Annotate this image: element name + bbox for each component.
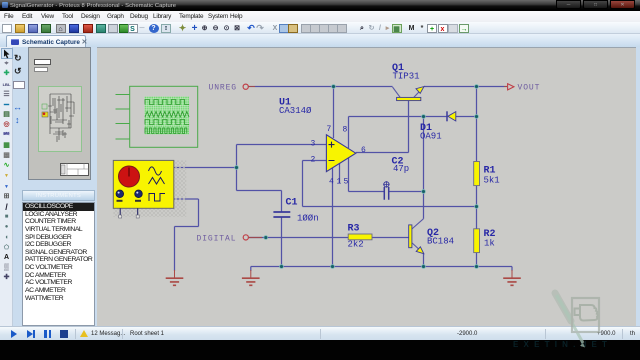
svg-text:OA91: OA91 [420, 132, 442, 142]
svg-text:CA314Ø: CA314Ø [279, 106, 312, 116]
svg-text:2: 2 [311, 156, 316, 165]
svg-text:C1: C1 [286, 198, 298, 209]
svg-text:1ØØn: 1ØØn [297, 214, 319, 224]
svg-text:3: 3 [311, 140, 316, 149]
svg-text:47p: 47p [393, 164, 409, 174]
svg-text:2k2: 2k2 [348, 240, 364, 250]
svg-text:6: 6 [361, 146, 366, 155]
svg-text:VOUT: VOUT [518, 84, 541, 93]
svg-text:5: 5 [344, 178, 349, 187]
svg-text:5k1: 5k1 [484, 176, 500, 186]
svg-text:1: 1 [337, 178, 342, 187]
svg-text:DIGITAL: DIGITAL [197, 234, 237, 243]
svg-text:8: 8 [343, 126, 348, 135]
svg-text:1k: 1k [484, 239, 495, 249]
svg-text:7: 7 [327, 125, 332, 134]
svg-text:4: 4 [329, 178, 334, 187]
svg-text:UNREG: UNREG [209, 84, 238, 93]
svg-text:BC184: BC184 [427, 237, 454, 247]
svg-text:R3: R3 [348, 224, 360, 235]
svg-text:TIP31: TIP31 [393, 72, 420, 82]
